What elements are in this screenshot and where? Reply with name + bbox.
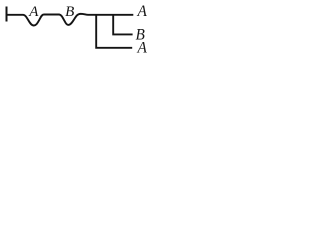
wire branch to middle B <box>113 15 132 35</box>
wire with dip A and dip B <box>7 14 134 26</box>
wire branch to bottom A <box>96 15 132 48</box>
svg-text:A: A <box>137 3 148 20</box>
svg-text:B: B <box>65 4 74 20</box>
svg-text:A: A <box>28 4 39 20</box>
svg-text:A: A <box>137 39 148 56</box>
terminal bar <box>6 7 8 22</box>
